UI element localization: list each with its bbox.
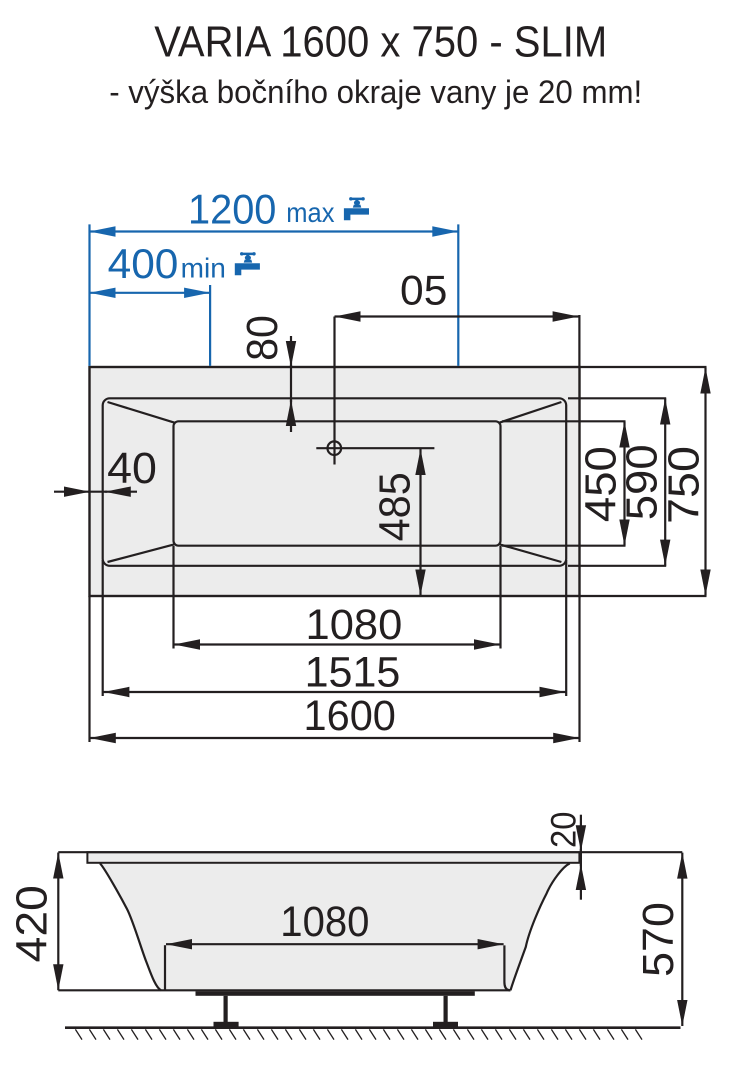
dim 450 line: [623, 422, 625, 546]
svg-text:min: min: [181, 253, 226, 284]
svg-text:20: 20: [543, 812, 583, 848]
leg right: [444, 996, 448, 1023]
dim 1515 left extension: [102, 560, 104, 696]
base plate: [196, 991, 475, 996]
dim 1080 side line: [166, 943, 504, 945]
svg-text:420: 420: [7, 885, 56, 962]
dim 750 bottom extension: [581, 595, 707, 597]
side view rim band: [87, 852, 579, 863]
side view left wall curve: [100, 863, 161, 990]
svg-text:750: 750: [660, 446, 709, 524]
dim 1515 line: [103, 691, 565, 693]
dim 80 middle segment: [290, 365, 292, 402]
side view basin fill: [100, 864, 570, 991]
side view bottom line with left extension: [58, 989, 510, 991]
svg-text:1200: 1200: [188, 185, 276, 232]
svg-text:1515: 1515: [305, 649, 401, 697]
svg-text:40: 40: [107, 444, 157, 493]
dim 1600 left extension: [88, 596, 90, 742]
drain vertical extension line for dim 05: [333, 317, 335, 465]
svg-text:1080: 1080: [280, 898, 369, 946]
foot right: [433, 1022, 458, 1027]
faucet icon 1: [344, 197, 369, 220]
interior floor left edge: [164, 945, 166, 990]
dim 400 min line: [90, 292, 211, 294]
dim 590 bottom extension: [568, 565, 666, 567]
top view tub outer body: [90, 367, 580, 596]
corner slope bottom-left: [108, 544, 176, 562]
interior floor right edge: [504, 945, 510, 990]
ground line: [65, 1026, 681, 1029]
dim 1200 right extension: [457, 224, 459, 366]
svg-text:1080: 1080: [306, 601, 403, 649]
corner slope top-left: [108, 402, 176, 423]
dim 1515 right extension: [565, 560, 567, 696]
dim 80 lower arrow: [290, 400, 292, 432]
svg-text:400: 400: [108, 240, 179, 287]
dim 1080 right extension: [499, 546, 501, 649]
faucet icon 2: [235, 252, 260, 275]
dim 1080 line (top view): [174, 643, 500, 645]
dim 80 upper arrow: [290, 336, 292, 367]
dim 1200 max line: [90, 230, 459, 232]
leg left: [224, 996, 228, 1023]
dim 450 bottom extension: [502, 545, 626, 547]
foot left: [214, 1022, 239, 1027]
svg-text:570: 570: [634, 902, 683, 977]
side view rim top line with extensions: [58, 851, 682, 853]
svg-text:- výška bočního okraje vany je: - výška bočního okraje vany je 20 mm!: [109, 74, 642, 110]
drain horizontal centerline: [316, 447, 434, 449]
svg-text:80: 80: [238, 315, 287, 361]
dim 420 line: [57, 853, 59, 991]
dim 40 left arrow: [54, 491, 90, 493]
dim 20 lower arrow: [580, 864, 582, 900]
dim 450 top extension: [502, 420, 626, 422]
dim 40 middle segment: [88, 491, 107, 493]
dim 1080 left extension: [172, 546, 174, 649]
dim 590 top extension: [568, 397, 666, 399]
dim 05 line: [335, 315, 579, 317]
dim 1200 left extension: [88, 224, 90, 366]
dim 1600 line: [90, 737, 579, 739]
svg-text:485: 485: [371, 472, 420, 541]
dim 570 line: [681, 853, 683, 1026]
dim 20 upper arrow: [580, 815, 582, 852]
dim 400 right extension: [209, 285, 211, 366]
dim 750 top extension: [581, 366, 707, 368]
dim 750 line: [704, 368, 706, 596]
dim 590 line: [664, 399, 666, 566]
svg-text:max: max: [286, 197, 334, 228]
dim 20 middle segment: [580, 849, 582, 866]
drain symbol: [328, 441, 342, 455]
corner slope bottom-right: [499, 544, 561, 562]
svg-text:1600: 1600: [304, 692, 396, 740]
dim 05 right extension: [578, 315, 580, 367]
corner slope top-right: [499, 402, 561, 423]
dim 40 right arrow: [105, 491, 137, 493]
top view tub floor: [174, 421, 501, 545]
ground hatching: [75, 1029, 642, 1039]
top view tub rim: [103, 398, 567, 566]
dim 1600 right extension: [578, 596, 580, 742]
svg-text:05: 05: [400, 267, 447, 314]
svg-text:VARIA 1600 x 750 - SLIM: VARIA 1600 x 750 - SLIM: [154, 18, 607, 67]
dim 485 line: [419, 449, 421, 596]
side view right wall curve: [511, 863, 570, 990]
